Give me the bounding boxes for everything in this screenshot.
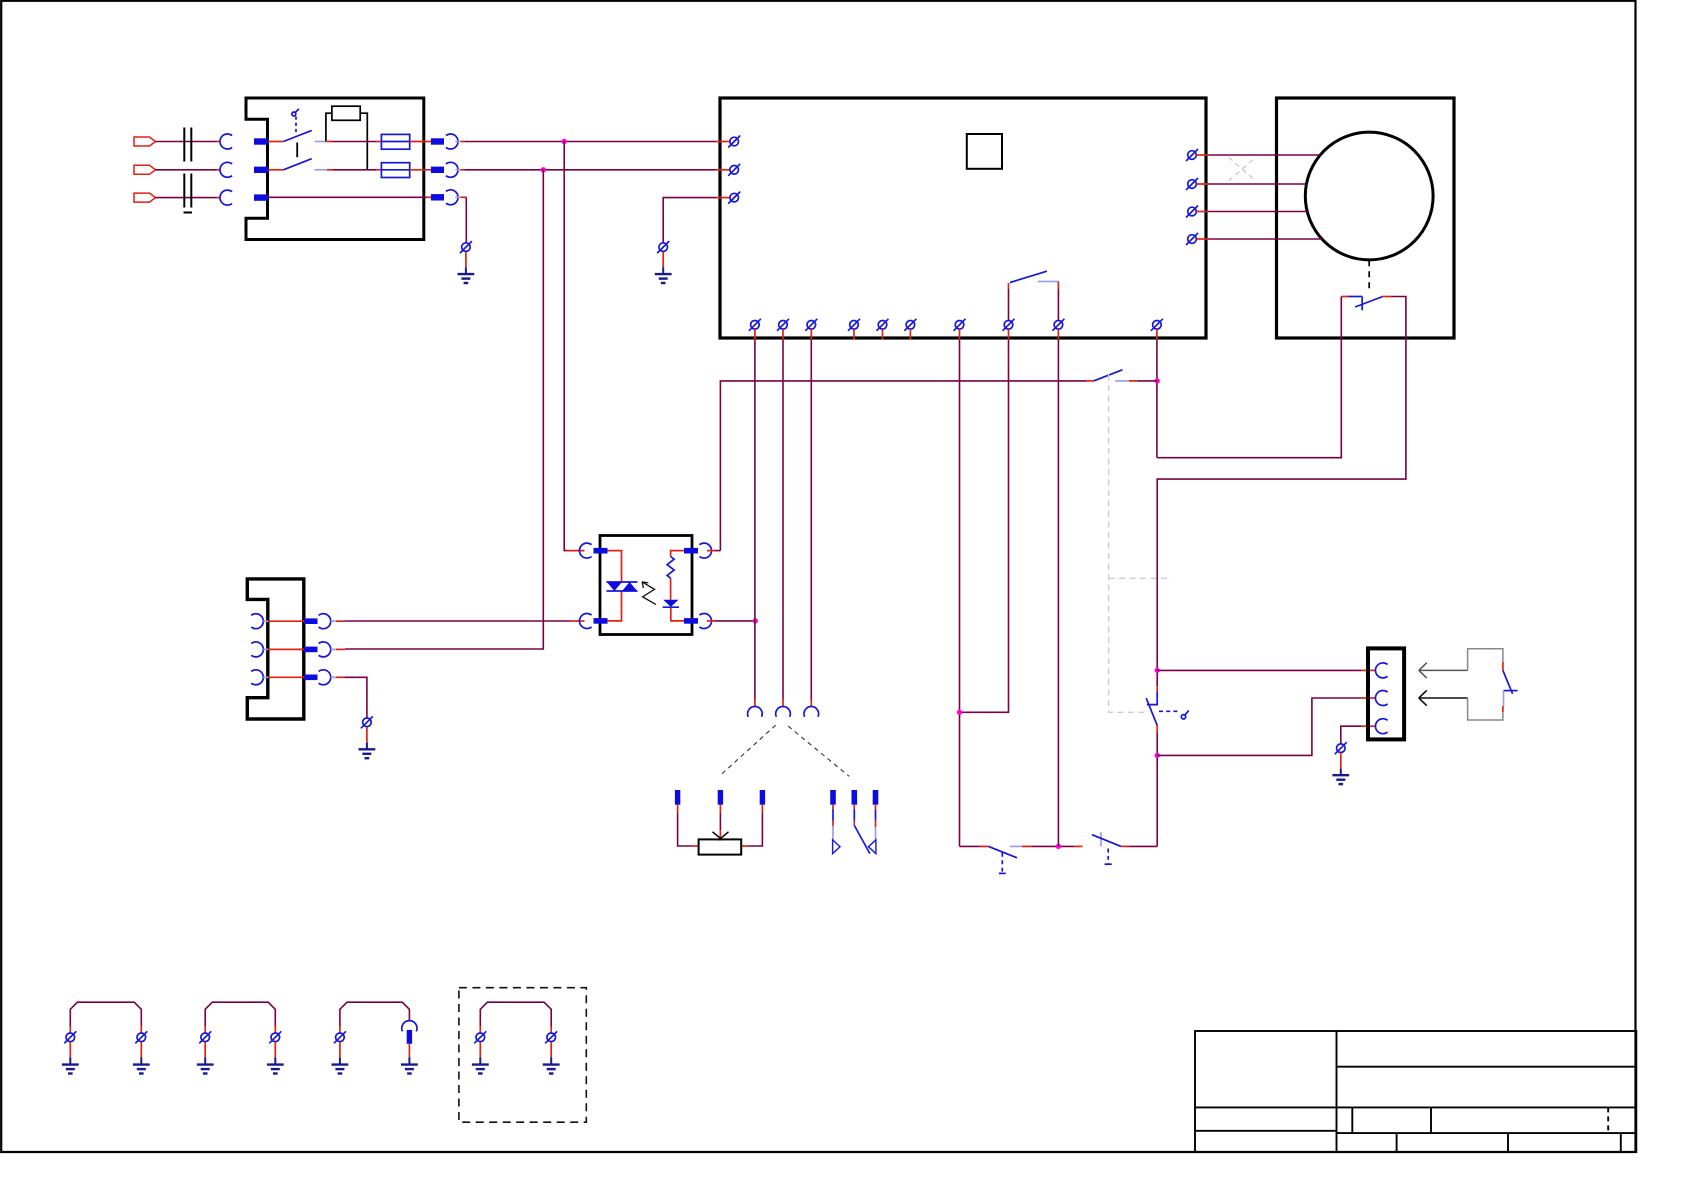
loop4 left ground <box>472 1042 489 1074</box>
module output pin 1 <box>431 134 465 149</box>
board terminal bottom 7 <box>954 319 966 340</box>
board terminal right 2 <box>1186 178 1209 190</box>
optional loop dashed enclosure <box>459 988 586 1122</box>
board terminal right 4 <box>1186 233 1209 245</box>
switch S2 <box>1086 370 1157 381</box>
light coupling arrow <box>642 582 656 605</box>
J4 socket 3 <box>1375 719 1387 734</box>
ground loop 2 wire <box>205 1002 275 1026</box>
socket header pin2 <box>776 699 791 717</box>
main control board housing <box>720 98 1206 338</box>
wire input PE <box>156 197 217 199</box>
crossover mark <box>1229 157 1256 181</box>
wire connector pin1 feed <box>1157 669 1376 671</box>
sensor plug pin2 <box>852 790 858 805</box>
wire pot wiper <box>719 805 721 838</box>
board terminal bottom 6 (unused) <box>904 319 916 340</box>
module pin 1 <box>254 138 268 144</box>
wire motor phase 4 <box>1209 238 1322 240</box>
junction terminal9 <box>1056 844 1061 849</box>
board terminal bottom 4 (unused) <box>848 319 860 340</box>
opto pin bottom-left <box>570 613 608 628</box>
wire terminal10 drop <box>1156 340 1158 458</box>
board terminal bottom 9 <box>1052 319 1064 340</box>
module pin 3 <box>254 194 268 200</box>
opto pin top-left <box>566 543 608 558</box>
sensor switch contact left <box>833 805 840 854</box>
loop2 right ground <box>267 1042 284 1074</box>
triac internal wiring <box>608 551 622 621</box>
loop4 right ground <box>543 1042 560 1074</box>
wire chain end <box>1130 845 1158 847</box>
sensor switch blade <box>854 805 870 854</box>
feedthrough capacitor C1 <box>184 128 193 213</box>
loop1 right screw terminal <box>135 1026 147 1043</box>
door switch S7 <box>1503 662 1518 712</box>
loop1 left ground <box>62 1042 79 1074</box>
loop2 left ground <box>197 1042 214 1074</box>
loop3 left ground <box>332 1042 349 1074</box>
relay block on board <box>967 134 1002 169</box>
fuse F1 <box>376 134 431 149</box>
mechanical link S2 to S4 (dashed) <box>1109 375 1172 713</box>
socket header pin1 <box>748 699 763 717</box>
wire chain start <box>960 845 980 847</box>
wire S1 to F1 <box>333 141 376 143</box>
ground J4 earth <box>1332 753 1349 784</box>
wire S1 to F2 <box>333 169 376 171</box>
input terminal 1 (line) <box>134 137 156 146</box>
LED internal wiring <box>671 551 684 621</box>
board terminal left 1 <box>716 136 740 148</box>
wire J2 pin1 to opto <box>345 620 570 622</box>
switch S1 pole 2 <box>268 159 333 170</box>
wire S5 left leg <box>1157 297 1341 458</box>
board terminal right 3 <box>1186 206 1209 218</box>
junction connector pin2 <box>1155 753 1160 758</box>
switch S1 pole 1 <box>268 130 333 141</box>
board terminal bottom 10 <box>1151 319 1163 340</box>
optocoupler U2 housing <box>600 536 692 635</box>
sensor switch contact right <box>868 805 876 854</box>
switch S4 (on vertical wire) <box>1146 686 1157 733</box>
wire PE drop <box>465 197 467 242</box>
wire L drop to optocoupler <box>564 142 566 551</box>
board terminal left 2 <box>716 164 740 176</box>
wire terminal9 drop <box>1057 340 1059 847</box>
mating arrow 2 <box>1419 690 1468 705</box>
switch S3b <box>1074 832 1130 846</box>
board terminal bottom 5 (unused) <box>877 319 889 340</box>
loop1 left screw terminal <box>64 1026 76 1043</box>
switch S1 actuator <box>292 109 299 134</box>
screw terminal PE <box>460 241 472 253</box>
loop3 left screw terminal <box>334 1026 346 1043</box>
ground input PE <box>458 252 475 283</box>
ground loop 3 wire <box>340 1002 410 1026</box>
loop4 left screw terminal <box>474 1026 486 1043</box>
board terminal right 1 <box>1186 149 1209 161</box>
wire input L <box>156 141 217 143</box>
board terminal left 3 (earth) <box>716 192 740 204</box>
wire terminal8 drop <box>960 340 1009 713</box>
loop4 right screw terminal <box>545 1026 557 1043</box>
S3b actuator <box>1105 849 1112 865</box>
door switch plug outline <box>1468 649 1503 720</box>
loop3 right pin socket <box>402 1021 417 1044</box>
alternative link dashed right <box>788 726 849 776</box>
wire N drop to connector pin2 <box>345 170 543 649</box>
screw terminal J4 earth <box>1335 742 1347 754</box>
ground board earth <box>655 252 672 283</box>
wire motor phase 3 <box>1209 211 1307 213</box>
control connector J2 housing <box>247 579 303 719</box>
board internal switch K1 <box>1009 271 1059 320</box>
junction S2 output <box>1155 378 1160 383</box>
wire pot right <box>741 805 762 846</box>
opto pin bottom-right <box>684 613 755 628</box>
board terminal bottom 1 <box>749 319 761 340</box>
motor unit housing <box>1277 98 1455 338</box>
loop2 left screw terminal <box>199 1026 211 1043</box>
wire input N <box>156 169 217 171</box>
centrifugal switch S5 <box>1341 297 1390 311</box>
junction N <box>541 167 546 172</box>
mating arrow 1 <box>1419 663 1468 678</box>
socket header pin3 <box>804 699 819 717</box>
wire connector pin3 to ground <box>1341 726 1376 743</box>
junction L <box>562 139 567 144</box>
connector socket J1 pin1 <box>217 134 233 149</box>
wire S4 lower <box>1156 733 1158 846</box>
ground loop 1 wire <box>70 1002 141 1026</box>
power entry module housing <box>246 98 424 240</box>
loop2 right screw terminal <box>269 1026 281 1043</box>
junction connector pin1 <box>1155 668 1160 673</box>
J2 pin 2 <box>251 642 345 657</box>
screw terminal board earth <box>657 241 669 253</box>
S3a actuator <box>999 853 1006 874</box>
ground J2 earth <box>359 727 376 758</box>
fuse F2 <box>376 163 431 178</box>
wire motor phase 1 <box>1209 154 1320 156</box>
J4 socket 1 <box>1375 663 1387 678</box>
wire chain middle <box>1031 845 1074 847</box>
wire terminal1 drop <box>754 340 756 700</box>
connector socket J1 pin2 <box>217 162 233 177</box>
motor M1 <box>1305 132 1433 260</box>
input terminal 2 (neutral) <box>134 165 156 174</box>
opto pin top-right <box>684 543 720 558</box>
wire connector pin2 feed <box>1157 698 1376 755</box>
sensor plug pin3 <box>873 790 879 805</box>
board terminal bottom 8 <box>1003 319 1015 340</box>
potentiometer plug pin3 <box>760 790 765 805</box>
connector socket J1 pin3 <box>217 190 233 205</box>
S4 actuator symbol <box>1159 710 1189 719</box>
loop3 right ground <box>401 1044 418 1074</box>
board terminal bottom 3 <box>805 319 817 340</box>
wire board earth <box>663 198 716 243</box>
loop1 right ground <box>133 1042 150 1074</box>
potentiometer RV1 <box>699 832 742 855</box>
switch S3a <box>980 846 1031 857</box>
junction chain <box>957 710 962 715</box>
potentiometer plug pin1 <box>675 790 680 805</box>
module output pin 3 <box>431 190 466 205</box>
input terminal 3 (earth) <box>134 193 156 202</box>
resistor R2 (zigzag) <box>667 557 674 579</box>
J2 pin 3 <box>251 670 345 685</box>
alternative link dashed left <box>720 725 776 776</box>
module wire pin3 through <box>268 196 426 198</box>
potentiometer plug pin2 <box>718 790 723 805</box>
module pin 2 <box>254 167 268 173</box>
wire terminal3 drop <box>810 340 812 700</box>
ground loop 4 wire <box>480 1002 551 1026</box>
board terminal bottom 2 <box>777 319 789 340</box>
output connector J4 housing <box>1368 648 1404 739</box>
module output pin 2 <box>431 162 465 177</box>
sensor plug pin1 <box>830 790 836 805</box>
wire motor phase 2 <box>1209 183 1306 185</box>
motor shaft link (dashed) <box>1368 260 1370 289</box>
wire L to main board <box>465 141 716 143</box>
J2 pin 1 <box>251 614 345 629</box>
wire pot left <box>678 805 699 846</box>
wire J2 pin3 to ground <box>345 677 367 718</box>
title block <box>1195 1031 1636 1152</box>
junction opto output <box>753 618 758 623</box>
wire S2 feed <box>720 381 1086 551</box>
wire N to main board <box>465 169 716 171</box>
J4 socket 2 <box>1375 690 1387 705</box>
LED D1 <box>663 600 679 607</box>
triac Q1 <box>607 582 638 591</box>
wire terminal7 drop <box>959 340 961 847</box>
wire terminal2 drop <box>782 340 784 700</box>
switch S1 mechanical link <box>296 143 298 158</box>
resistor R1 (snubber) <box>326 106 367 170</box>
wire S5 right leg <box>1157 297 1406 687</box>
screw terminal J2 earth <box>361 716 373 728</box>
